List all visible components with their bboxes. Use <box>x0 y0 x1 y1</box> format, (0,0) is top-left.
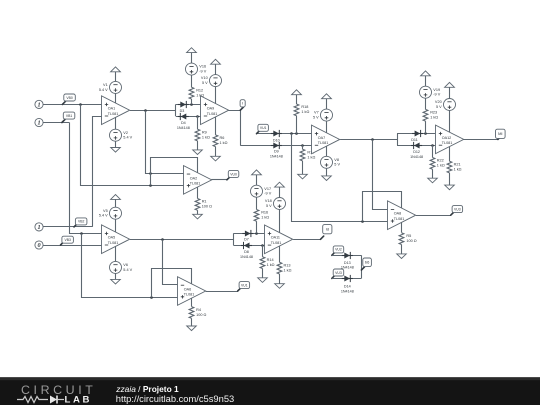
svg-text:R14: R14 <box>267 258 274 262</box>
junction R18 <box>295 132 298 135</box>
resistor R12 1 kOhm <box>189 87 194 99</box>
svg-text:5 V: 5 V <box>334 163 340 167</box>
wire OA5 output <box>130 239 233 241</box>
wire bridge2 vertical <box>233 233 235 245</box>
svg-text:OA8: OA8 <box>394 212 401 216</box>
power arrow above V19 <box>425 76 427 86</box>
wire D12 row <box>397 145 435 147</box>
svg-text:-9 V: -9 V <box>199 70 206 74</box>
op-amp OA8 body <box>388 201 416 230</box>
wire D3 row <box>176 104 201 106</box>
junction OA6 plus <box>150 296 153 299</box>
svg-text:D11: D11 <box>411 138 418 142</box>
op-amp OA6 body <box>178 277 206 306</box>
svg-text:V8: V8 <box>334 158 339 162</box>
wire T3 to VB2 net <box>43 226 93 228</box>
op-amp OA2 body <box>184 166 212 195</box>
svg-text:0: 0 <box>37 242 40 249</box>
wire V16 to R12 <box>191 75 193 87</box>
resistor R5 100 Ohm <box>399 233 404 245</box>
svg-text:OA11: OA11 <box>271 236 280 240</box>
resistor R18 1 kOhm <box>294 104 299 116</box>
ground below R1 <box>197 210 199 214</box>
svg-text:1N4148: 1N4148 <box>177 126 190 130</box>
resistor R22 1 kOhm <box>430 158 435 170</box>
wire V20 column through OA12 <box>449 111 451 162</box>
svg-text:VU3: VU3 <box>335 271 342 275</box>
svg-text:TL081: TL081 <box>394 217 404 221</box>
wire V5-V6 column through OA5 <box>115 219 117 261</box>
wire OA2 output <box>211 179 227 181</box>
wire OA2 minus route <box>146 111 184 174</box>
svg-text:TL081: TL081 <box>318 141 328 145</box>
op-amp OA1 body <box>102 96 130 125</box>
junction R12 <box>190 103 193 106</box>
junction OA5 plus branch <box>80 232 83 235</box>
svg-text:V17: V17 <box>264 187 271 191</box>
flag VU3 consumer <box>332 275 335 278</box>
wire R18 to junction <box>296 116 298 134</box>
wire bridge1 vertical <box>175 104 177 116</box>
wire bridge3 vertical <box>397 134 399 146</box>
wire D8 row <box>233 245 265 247</box>
flag VU3 producer <box>451 212 454 215</box>
wire T1 to OA1 plus <box>43 104 102 106</box>
svg-text:V19: V19 <box>433 88 440 92</box>
flag Id <box>321 236 324 239</box>
ground below V6 <box>115 273 117 279</box>
svg-text:D3: D3 <box>180 109 185 113</box>
power arrow above V1 <box>115 72 117 82</box>
svg-text:R21: R21 <box>454 162 461 166</box>
junction OA8 minus branch <box>371 138 374 141</box>
voltage source V10 5 V <box>210 75 222 87</box>
svg-text:R13: R13 <box>284 263 291 267</box>
svg-text:5 V: 5 V <box>436 105 442 109</box>
svg-text:VB2: VB2 <box>78 220 85 224</box>
resistor R21 1 kOhm <box>447 161 452 173</box>
svg-text:1 kΩ: 1 kΩ <box>430 116 438 120</box>
voltage source V19 -9 V <box>420 86 432 98</box>
op-amp OA11 body <box>265 225 293 254</box>
svg-text:I: I <box>242 101 243 106</box>
svg-text:R18: R18 <box>301 105 308 109</box>
svg-text:V1: V1 <box>103 83 108 87</box>
svg-text:TL081: TL081 <box>190 181 200 185</box>
svg-text:100 Ω: 100 Ω <box>196 313 206 317</box>
junction R15 <box>301 144 304 147</box>
svg-text:D14: D14 <box>344 285 351 289</box>
svg-text:R1: R1 <box>202 200 207 204</box>
wire branch down to OA6 plus <box>82 234 178 298</box>
svg-text:1 kΩ: 1 kΩ <box>307 155 315 159</box>
wire junction to R9 <box>197 116 199 129</box>
flag VB2 <box>74 224 77 227</box>
wire D4 row <box>176 116 201 118</box>
wire OA11 output <box>293 239 320 241</box>
wire OA7 output <box>340 139 397 141</box>
resistor R15 1 kOhm <box>300 149 305 161</box>
wire VU2 through D13 <box>332 255 362 257</box>
ground below R5 <box>401 245 403 254</box>
wire V19 to R23 <box>425 98 427 109</box>
wire OA2 feedback rect to R1 <box>151 158 198 199</box>
flag VB3 <box>61 242 64 245</box>
wire OA9 out to corner <box>229 111 241 146</box>
wire OA6 output <box>206 291 238 293</box>
voltage source V20 5 V <box>444 99 456 111</box>
svg-text:MI: MI <box>498 131 502 136</box>
flag VB0 <box>62 101 65 104</box>
ground below R21 <box>449 173 451 185</box>
resistor R6 1 kOhm <box>213 135 218 147</box>
svg-text:5.4 V: 5.4 V <box>123 136 132 140</box>
wire V17 to R16 <box>256 197 258 209</box>
svg-text:TL081: TL081 <box>184 293 194 297</box>
svg-text:5.4 V: 5.4 V <box>99 88 108 92</box>
svg-text:TL081: TL081 <box>108 112 118 116</box>
junction rect left top <box>149 172 152 175</box>
svg-text:D13: D13 <box>344 261 351 265</box>
op-amp OA7 body <box>312 125 340 154</box>
wire T2 to VB1 <box>43 122 69 124</box>
wire OA6 feedback rect to R4 <box>152 269 192 307</box>
wire VU1 row through D10 <box>257 133 312 135</box>
svg-text:1: 1 <box>37 102 40 109</box>
diode D14 1N4148 <box>342 278 353 280</box>
wire T4 to OA5 minus <box>43 245 102 247</box>
wire V1-V2 column through OA1 <box>115 93 117 129</box>
flag MI <box>498 136 501 139</box>
resistor R16 1 kOhm <box>254 210 259 222</box>
wire V18 column through OA11 <box>279 210 281 263</box>
resistor R14 1 kOhm <box>260 257 265 269</box>
svg-text:1 kΩ: 1 kΩ <box>261 216 269 220</box>
wire R12 to junction <box>191 99 193 104</box>
wire VU3 through D14 <box>332 278 362 280</box>
svg-text:V20: V20 <box>435 100 442 104</box>
ground below R6 <box>215 147 217 157</box>
wire VB0 column to OA2 plus <box>81 105 184 186</box>
junction on OA2 plus wire <box>149 184 152 187</box>
wire OA1 output <box>130 110 176 112</box>
svg-text:V5: V5 <box>103 209 108 213</box>
svg-text:b6: b6 <box>365 260 370 265</box>
junction R23 <box>424 132 427 135</box>
svg-text:R9: R9 <box>202 130 207 134</box>
voltage source V17 -9 V <box>251 185 263 197</box>
svg-text:OA9: OA9 <box>207 107 214 111</box>
diode D4 1N4148 <box>178 116 189 118</box>
flag VU1 producer <box>238 288 241 291</box>
wire R15 stem <box>302 145 304 149</box>
svg-text:R4: R4 <box>196 308 201 312</box>
svg-text:5 V: 5 V <box>313 116 319 120</box>
wire OA8 feedback rect to R5 <box>363 192 402 233</box>
svg-text:V6: V6 <box>123 263 128 267</box>
wire R22 stem <box>432 145 434 157</box>
wire join vertical <box>361 255 363 278</box>
diode D11 <box>412 133 423 135</box>
terminal IN2 (1) <box>35 118 43 126</box>
svg-text:R5: R5 <box>406 234 411 238</box>
svg-text:5.4 V: 5.4 V <box>123 268 132 272</box>
svg-text:TL081: TL081 <box>207 112 217 116</box>
svg-text:VU0: VU0 <box>230 172 237 176</box>
voltage source V1 5.4 V <box>110 81 122 93</box>
ground below R13 <box>279 274 281 284</box>
svg-text:VU3: VU3 <box>454 207 461 211</box>
svg-text:1 kΩ: 1 kΩ <box>437 164 445 168</box>
resistor R13 1 kOhm <box>277 262 282 274</box>
voltage source V6 5.4 V <box>110 261 122 273</box>
diode D3 <box>178 104 189 106</box>
power arrow above V18 <box>279 187 281 197</box>
wire V10 column through OA9 <box>215 87 217 135</box>
svg-text:5.4 V: 5.4 V <box>99 214 108 218</box>
svg-text:D9: D9 <box>274 150 279 154</box>
op-amp OA12 body <box>436 125 464 154</box>
svg-text:D7: D7 <box>244 238 249 242</box>
svg-text:OA5: OA5 <box>108 236 115 240</box>
diode D7 <box>242 233 253 235</box>
svg-text:100 Ω: 100 Ω <box>406 239 416 243</box>
svg-text:VB1: VB1 <box>66 114 73 118</box>
terminal IN3 (1) <box>35 223 43 231</box>
junction R14 <box>261 244 264 247</box>
flag VU0 <box>227 177 230 180</box>
svg-text:1N4148: 1N4148 <box>270 155 283 159</box>
svg-text:VU1: VU1 <box>260 126 267 130</box>
svg-text:D4: D4 <box>181 121 186 125</box>
ground below R9 <box>197 141 199 150</box>
svg-text:1 kΩ: 1 kΩ <box>284 268 292 272</box>
junction R22 <box>431 144 434 147</box>
wire OA8 output <box>416 215 451 217</box>
junction OA2 minus branch <box>144 109 147 112</box>
op-amp OA5 body <box>102 225 130 254</box>
svg-text:D8: D8 <box>244 250 249 254</box>
svg-text:1 kΩ: 1 kΩ <box>220 141 228 145</box>
svg-text:-9 V: -9 V <box>264 192 271 196</box>
svg-text:VB0: VB0 <box>66 96 73 100</box>
wire D7 row <box>233 233 265 235</box>
svg-text:1: 1 <box>37 120 40 127</box>
resistor R23 1 kOhm <box>423 109 428 121</box>
op-amp OA9 body <box>201 96 229 125</box>
svg-text:OA7: OA7 <box>318 136 325 140</box>
svg-text:R22: R22 <box>437 159 444 163</box>
svg-text:R6: R6 <box>220 136 225 140</box>
flag I <box>240 107 243 110</box>
voltage source V16 -9 V <box>186 63 198 75</box>
power arrow above V5 <box>115 199 117 207</box>
flag VB1 <box>62 119 65 122</box>
resistor R4 100 Ohm <box>189 307 194 319</box>
svg-text:1N4148: 1N4148 <box>341 290 354 294</box>
svg-text:Id: Id <box>326 227 329 232</box>
junction OA8 plus column <box>290 132 293 135</box>
ground below V2 <box>115 141 117 147</box>
svg-text:1 kΩ: 1 kΩ <box>267 263 275 267</box>
svg-text:V18: V18 <box>265 199 272 203</box>
footer bar <box>0 377 540 405</box>
resistor R1 100 Ohm <box>195 199 200 211</box>
ground below V8 <box>326 168 328 176</box>
wire I row through D9 <box>240 145 312 147</box>
wire OA1 minus down <box>93 117 102 227</box>
svg-text:-9 V: -9 V <box>433 93 440 97</box>
svg-text:zzaia / Projeto 1: zzaia / Projeto 1 <box>115 384 179 394</box>
svg-text:1 kΩ: 1 kΩ <box>301 110 309 114</box>
svg-text:1 kΩ: 1 kΩ <box>202 135 210 139</box>
svg-text:V2: V2 <box>123 131 128 135</box>
power arrow above V7 <box>326 99 328 109</box>
power arrow above R18 <box>296 95 298 104</box>
svg-text:OA2: OA2 <box>190 176 197 180</box>
junction R16 <box>255 232 258 235</box>
wire OA8 plus route <box>292 134 388 222</box>
diode D8 1N4148 <box>241 245 252 247</box>
power arrow above V17 <box>256 175 258 185</box>
voltage source V2 5.4 V <box>110 129 122 141</box>
svg-text:D10: D10 <box>273 138 280 142</box>
wire VB1 column to OA5 plus <box>70 123 102 234</box>
junction VB0 <box>79 103 82 106</box>
svg-text:VB3: VB3 <box>64 238 71 242</box>
ground below R15 <box>302 161 304 174</box>
svg-text:100 Ω: 100 Ω <box>202 205 212 209</box>
svg-text:TL081: TL081 <box>108 241 118 245</box>
svg-text:http://circuitlab.com/c5s9n53: http://circuitlab.com/c5s9n53 <box>116 394 234 404</box>
svg-text:D12: D12 <box>413 150 420 154</box>
wire R23 to junction <box>425 121 427 134</box>
junction OA6 minus branch <box>161 238 164 241</box>
wire OA8 minus route <box>373 140 388 210</box>
svg-text:OA12: OA12 <box>442 136 451 140</box>
junction OA8 rect left <box>361 220 364 223</box>
ground below R22 <box>432 169 434 178</box>
svg-text:VU1: VU1 <box>241 283 248 287</box>
svg-text:TL081: TL081 <box>271 241 281 245</box>
terminal IN1 (1) <box>35 100 43 108</box>
power arrow above V20 <box>449 87 451 98</box>
svg-text:OA6: OA6 <box>184 287 191 291</box>
wire R14 stem <box>262 245 264 257</box>
svg-text:R23: R23 <box>430 111 437 115</box>
wire OA6 minus route <box>163 240 178 285</box>
svg-text:LAB: LAB <box>65 395 93 405</box>
svg-text:VU2: VU2 <box>335 248 342 252</box>
ground below R4 <box>191 318 193 326</box>
svg-text:OA1: OA1 <box>108 107 115 111</box>
voltage source V7 5 V <box>321 109 333 121</box>
resistor R9 1 kOhm <box>195 129 200 141</box>
wire R16 to junction <box>256 221 258 233</box>
svg-text:1N4148: 1N4148 <box>410 155 423 159</box>
svg-text:5 V: 5 V <box>266 204 272 208</box>
power arrow above V16 <box>191 53 193 64</box>
svg-text:1: 1 <box>37 224 40 231</box>
wire V7 column through OA7 <box>326 121 328 156</box>
diode D12 1N4148 <box>411 145 422 147</box>
svg-text:1N4148: 1N4148 <box>240 255 253 259</box>
svg-text:V10: V10 <box>201 76 208 80</box>
svg-text:TL081: TL081 <box>442 141 452 145</box>
svg-text:1 kΩ: 1 kΩ <box>454 167 462 171</box>
junction R9 <box>196 115 199 118</box>
wire D11 row <box>397 133 435 135</box>
voltage source V5 5.4 V <box>110 207 122 219</box>
ground below R14 <box>262 269 264 278</box>
voltage source V18 5 V <box>274 198 286 210</box>
svg-text:R12: R12 <box>196 88 203 92</box>
svg-text:5 V: 5 V <box>202 81 208 85</box>
svg-text:V7: V7 <box>314 111 319 115</box>
diode D10 <box>271 133 282 135</box>
svg-text:R16: R16 <box>261 211 268 215</box>
flag VU1 consumer <box>257 131 260 134</box>
wire OA12 output <box>463 139 498 141</box>
svg-text:V16: V16 <box>199 65 206 69</box>
terminal IN4 (0) <box>35 241 43 249</box>
flag b6 <box>361 267 364 270</box>
power arrow above V10 <box>215 64 217 74</box>
flag VU2 consumer <box>332 252 335 255</box>
voltage source V8 5 V <box>321 156 333 168</box>
diode D13 1N4148 <box>342 255 353 257</box>
diode D9 1N4148 <box>271 145 282 147</box>
